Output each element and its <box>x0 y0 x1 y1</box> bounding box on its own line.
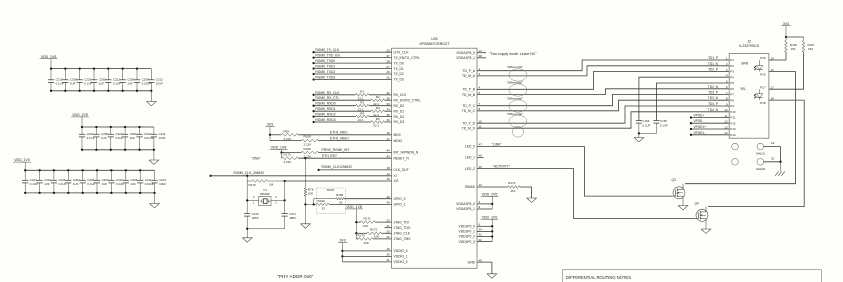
svg-text:U30: U30 <box>431 37 438 41</box>
wire XO <box>285 180 392 182</box>
svg-text:VDD_2V5: VDD_2V5 <box>72 113 88 117</box>
svg-text:"Differential": "Differential" <box>507 96 523 100</box>
wire net RGMII_RX_CTL <box>312 99 314 101</box>
wire 3V3 to R167 <box>786 36 804 38</box>
resistor R167 150 <box>803 37 805 41</box>
svg-text:P13: P13 <box>730 127 736 131</box>
wire VDD1P0_3 <box>477 241 492 243</box>
wire crystal right vertical <box>284 181 286 214</box>
svg-text:R179: R179 <box>249 183 257 187</box>
svg-text:ETH1_MDC: ETH1_MDC <box>330 131 348 135</box>
svg-text:0.1UF: 0.1UF <box>87 136 95 140</box>
svg-text:R189: R189 <box>336 193 344 197</box>
capacitor C222 0.1UF <box>81 127 83 134</box>
svg-text:RGMII_TXD3: RGMII_TXD3 <box>315 76 335 80</box>
wire net RGMII_TXD1 <box>312 67 314 69</box>
svg-text:10UF: 10UF <box>156 81 163 85</box>
svg-text:LED_1: LED_1 <box>465 156 475 160</box>
ground (Q3 source) <box>678 206 688 210</box>
wire VDD1P0_2 <box>477 236 492 238</box>
svg-text:DIFFERENTIAL ROUTING NOTES: DIFFERENTIAL ROUTING NOTES <box>566 275 631 280</box>
wire PRGE_RGMII_INT <box>282 152 302 154</box>
wire cap bank 1 rails <box>51 68 151 70</box>
resistor R189 33 <box>336 198 345 200</box>
svg-text:RGMII_TXD0: RGMII_TXD0 <box>315 59 335 63</box>
connector J2 SHLD2 pad <box>757 159 764 166</box>
capacitor C217 18PF <box>282 213 288 215</box>
svg-text:20: 20 <box>771 156 775 160</box>
wire LED_1 stub <box>477 157 484 159</box>
svg-text:1UF: 1UF <box>70 81 76 85</box>
svg-text:R3: R3 <box>360 101 364 105</box>
svg-text:0.01UF: 0.01UF <box>145 182 155 186</box>
svg-text:R2: R2 <box>376 95 380 99</box>
wire TD_M_D to RJ45 <box>477 112 729 128</box>
wire cap bank 2 rails <box>82 126 154 128</box>
svg-text:3V3: 3V3 <box>267 123 273 127</box>
svg-text:"PHY ADDR 0x0": "PHY ADDR 0x0" <box>277 274 313 279</box>
svg-text:22.1: 22.1 <box>358 118 364 122</box>
junction node 3V3 LED resistors <box>785 36 787 38</box>
svg-text:0.1UF: 0.1UF <box>87 182 95 186</box>
svg-text:R171: R171 <box>364 217 372 221</box>
wire C194/C195 ground rail <box>639 132 657 134</box>
svg-text:R170: R170 <box>284 152 292 156</box>
capacitor C200 1UF <box>122 69 124 80</box>
svg-text:P1: P1 <box>730 58 734 62</box>
svg-text:0.1UF: 0.1UF <box>59 182 67 186</box>
crystal Y4 25MHZ <box>259 196 271 205</box>
svg-text:40: 40 <box>386 201 390 205</box>
svg-text:TD_M_A: TD_M_A <box>462 74 476 78</box>
wire GPIO_1 <box>329 203 392 205</box>
wire SHLD2 to chassis <box>764 161 781 163</box>
svg-text:1UF: 1UF <box>44 182 50 186</box>
svg-text:XI: XI <box>394 174 397 178</box>
svg-text:11K: 11K <box>511 189 516 193</box>
capacitor C201 1UF <box>39 170 41 180</box>
wire strap vertical to GPIO_0 row <box>313 199 315 205</box>
svg-text:39: 39 <box>386 195 390 199</box>
svg-text:RBIAS: RBIAS <box>465 185 476 189</box>
svg-text:13: 13 <box>479 49 483 53</box>
svg-text:10: 10 <box>724 108 728 112</box>
svg-text:R174: R174 <box>508 181 516 185</box>
svg-text:VDD_1V0: VDD_1V0 <box>14 158 30 162</box>
wire strap node horizontal <box>305 203 316 205</box>
capacitor C210 0.01UF <box>139 127 141 134</box>
svg-text:ETH_RST: ETH_RST <box>322 154 337 158</box>
wire VDD1P0_1 <box>477 230 492 232</box>
svg-text:R190: R190 <box>318 199 326 203</box>
svg-text:Q4: Q4 <box>695 201 699 205</box>
svg-text:1UF: 1UF <box>130 136 136 140</box>
svg-text:48: 48 <box>479 54 483 58</box>
svg-text:25MHZ: 25MHZ <box>260 192 270 196</box>
svg-text:"Differential": "Differential" <box>507 80 523 84</box>
svg-text:0.1UF: 0.1UF <box>113 81 121 85</box>
svg-text:43: 43 <box>386 154 390 158</box>
svg-text:VDD_2V5: VDD_2V5 <box>482 193 498 197</box>
ground (cap bank 1) <box>150 90 152 92</box>
resistor R4 22.1 <box>371 110 385 113</box>
junction node strap Y <box>304 203 306 205</box>
capacitor C204 1UF <box>125 170 127 180</box>
svg-text:P9: P9 <box>730 104 734 108</box>
svg-text:YEL: YEL <box>740 87 746 91</box>
wire SHLD1 to chassis <box>764 146 781 148</box>
annotation extra ellipse pair D <box>512 126 523 137</box>
wire JTAG_TDO stub <box>385 227 392 229</box>
annotation Differential ellipse <box>509 69 527 81</box>
wire net RGMII_RXD2 <box>312 115 314 117</box>
notes box DIFFERENTIAL ROUTING NOTES <box>563 270 822 282</box>
wire net RGMII_TXD_EN <box>312 56 314 58</box>
capacitor C203 1UF <box>96 170 98 180</box>
capacitor C223 0.1UF <box>110 127 112 134</box>
svg-text:RGMII_TXD2: RGMII_TXD2 <box>315 70 335 74</box>
junction node JTAG_TDI rail <box>355 221 357 223</box>
svg-text:TD3_P: TD3_P <box>708 91 718 95</box>
connector J2 SHLD1 pad <box>757 143 764 150</box>
svg-text:10K: 10K <box>308 192 313 196</box>
wire J2 P18 to Q4 drain <box>708 100 804 207</box>
svg-text:33: 33 <box>322 206 326 210</box>
svg-text:1UF: 1UF <box>99 81 105 85</box>
svg-text:"Two supply mode: Leave NC": "Two supply mode: Leave NC" <box>489 52 537 56</box>
svg-text:"Differential": "Differential" <box>507 112 523 116</box>
svg-text:P18: P18 <box>760 101 766 105</box>
svg-text:29: 29 <box>386 48 390 52</box>
svg-text:1UF: 1UF <box>102 182 108 186</box>
svg-text:VDD1P0_0: VDD1P0_0 <box>459 225 476 229</box>
svg-text:22: 22 <box>386 235 390 239</box>
svg-text:TD3_N: TD3_N <box>708 96 719 100</box>
svg-text:P16: P16 <box>760 72 766 76</box>
svg-text:1M: 1M <box>269 182 274 186</box>
svg-text:JTAG_TDI: JTAG_TDI <box>394 220 409 224</box>
svg-text:44: 44 <box>386 149 390 153</box>
svg-text:R5: R5 <box>360 111 364 115</box>
wire GPIO_0 <box>344 198 391 200</box>
wire net VPOE- <box>690 122 692 124</box>
capacitor C198 1UF <box>64 69 66 80</box>
svg-text:VDD_1V8: VDD_1V8 <box>271 146 287 150</box>
svg-text:RX_D0: RX_D0 <box>394 104 405 108</box>
annotation Differential ellipse <box>509 100 527 112</box>
svg-text:P10: P10 <box>730 110 736 114</box>
svg-text:"DNS": "DNS" <box>252 157 261 161</box>
resistor R5 22.1 <box>356 115 370 118</box>
wire TD_M_A to RJ45 <box>477 66 729 76</box>
ground (IC GND) <box>487 274 497 278</box>
wire net VPOE1- <box>690 134 692 136</box>
svg-text:VDDA1P8_0: VDDA1P8_0 <box>456 51 475 55</box>
svg-text:3V3: 3V3 <box>339 239 345 243</box>
wire VDDA2P5_0 <box>477 203 492 205</box>
resistor R168 2.21K <box>301 139 318 142</box>
svg-text:GTX_CLK: GTX_CLK <box>394 50 410 54</box>
svg-text:RGMII_TXD_EN: RGMII_TXD_EN <box>315 54 340 58</box>
capacitor C221 0.1UF <box>107 69 109 80</box>
svg-text:INT_N/PWDN_N: INT_N/PWDN_N <box>394 151 419 155</box>
capacitor C194 0.1UF <box>636 120 642 122</box>
wire net RGMII_RXD3 <box>312 121 314 123</box>
svg-text:46: 46 <box>479 154 483 158</box>
svg-text:VDDIO_2: VDDIO_2 <box>394 260 408 264</box>
svg-text:10K: 10K <box>364 241 369 245</box>
svg-text:10K: 10K <box>374 235 379 239</box>
resistor R6 22.1 <box>371 121 385 124</box>
svg-text:0.1UF: 0.1UF <box>660 123 668 127</box>
junction node XO / crystal <box>283 180 285 182</box>
svg-text:10: 10 <box>479 119 483 123</box>
svg-text:VPOE+: VPOE+ <box>694 114 705 118</box>
wire VDDIO_1 <box>341 255 343 257</box>
wire net RGMII_RXD1 <box>312 110 314 112</box>
wire RGMII_CLK_25MHZ <box>209 175 211 177</box>
svg-text:Q3: Q3 <box>672 178 676 182</box>
junction node MDC rail <box>269 134 271 136</box>
svg-text:GPIO_0: GPIO_0 <box>394 197 406 201</box>
wire ETH_RST <box>280 157 282 159</box>
svg-text:TD_P_C: TD_P_C <box>462 104 475 108</box>
ground (cap bank 2) <box>153 149 155 151</box>
capacitor C211 0.01UF <box>139 170 141 180</box>
svg-text:VDDA1P8_1: VDDA1P8_1 <box>456 56 475 60</box>
svg-text:0.1UF: 0.1UF <box>30 182 38 186</box>
wire VDDA1P8_1 stub (NC) <box>477 57 486 59</box>
wire net RGMII_TXD2 <box>312 73 314 75</box>
ground (Q4 source) <box>701 229 711 233</box>
junction node crystal ground rail <box>246 228 248 230</box>
svg-text:24: 24 <box>479 228 483 232</box>
svg-text:10UF: 10UF <box>159 182 166 186</box>
svg-text:19: 19 <box>386 247 390 251</box>
svg-text:RGMII_RX_CLK: RGMII_RX_CLK <box>315 91 340 95</box>
svg-text:R173: R173 <box>358 233 366 237</box>
svg-text:6-2337992-8: 6-2337992-8 <box>739 44 758 48</box>
svg-text:P2: P2 <box>730 64 734 68</box>
svg-text:TD_M_B: TD_M_B <box>462 93 476 97</box>
svg-text:TD4_P: TD4_P <box>708 102 718 106</box>
svg-text:VDDIO_1: VDDIO_1 <box>394 255 408 259</box>
svg-text:VDDIO_0: VDDIO_0 <box>394 249 408 253</box>
svg-text:TX_EN/TX_CTRL: TX_EN/TX_CTRL <box>394 56 420 60</box>
svg-text:P6: P6 <box>730 87 734 91</box>
svg-text:0.1UF: 0.1UF <box>84 81 92 85</box>
wire net RGMII_RXD0 <box>312 105 314 107</box>
svg-text:VPOE-: VPOE- <box>694 119 704 123</box>
resistor R179 1M <box>247 180 252 182</box>
svg-text:RGMII_RX_CTL: RGMII_RX_CTL <box>315 96 339 100</box>
junction node JTAG_CLK rail <box>355 232 357 234</box>
svg-text:1UF: 1UF <box>101 136 107 140</box>
svg-text:TD_P_D: TD_P_D <box>462 121 475 125</box>
dashed DNS box (R189/R190) <box>317 188 346 214</box>
resistor R3 22.1 <box>356 104 370 107</box>
svg-text:TD1_N: TD1_N <box>708 62 719 66</box>
resistor R173 10K <box>359 238 374 241</box>
wire net RGMII_RX_CLK <box>312 94 314 96</box>
svg-text:TD_M_D: TD_M_D <box>462 126 476 130</box>
ground (RBIAS) <box>527 198 537 202</box>
svg-text:TD2_N: TD2_N <box>708 85 719 89</box>
svg-text:18: 18 <box>386 166 390 170</box>
svg-text:150: 150 <box>808 47 813 51</box>
svg-text:TD_P_B: TD_P_B <box>463 88 476 92</box>
wire R166 to J2 P15 <box>769 52 786 60</box>
wire JTAG_CLK <box>356 232 367 234</box>
capacitor C220 0.1UF <box>79 69 81 80</box>
capacitor C226 0.1UF <box>82 170 84 180</box>
svg-text:MDIO: MDIO <box>394 139 403 143</box>
ground (C194/C195) <box>638 133 640 137</box>
svg-text:LED_0: LED_0 <box>465 145 475 149</box>
resistor R190 33 <box>317 203 330 205</box>
svg-text:VDD1P0_3: VDD1P0_3 <box>459 240 476 244</box>
svg-text:RGMII_TX_CLK: RGMII_TX_CLK <box>315 48 340 52</box>
svg-text:31: 31 <box>479 233 483 237</box>
svg-text:16: 16 <box>386 131 390 135</box>
svg-text:TD2_P: TD2_P <box>708 68 718 72</box>
svg-text:SHLD2: SHLD2 <box>756 167 766 171</box>
wire TD_P_D to RJ45 <box>477 106 729 123</box>
svg-text:RX_D3: RX_D3 <box>394 120 405 124</box>
svg-text:15: 15 <box>386 177 390 181</box>
wire TD_M_B to RJ45 <box>477 89 729 95</box>
svg-text:XO: XO <box>394 179 399 183</box>
resistor R2 22.1 <box>371 99 385 102</box>
svg-text:0.1UF: 0.1UF <box>116 182 124 186</box>
svg-text:JTAG_TMS: JTAG_TMS <box>394 237 412 241</box>
wire VDDIO_0 <box>341 250 343 252</box>
capacitor C225 0.1UF <box>53 170 55 180</box>
svg-text:33: 33 <box>386 102 390 106</box>
capacitor C202 1UF <box>67 170 69 180</box>
svg-text:P14: P14 <box>730 133 736 137</box>
wire crystal stubs <box>247 199 259 201</box>
wire ETH1_MDIO <box>270 140 301 142</box>
svg-text:RGMII_TXD1: RGMII_TXD1 <box>315 65 335 69</box>
wire J2 P16 to Q3 drain <box>685 72 795 184</box>
resistor R166 150 <box>785 37 787 41</box>
svg-text:22.1: 22.1 <box>373 124 379 128</box>
svg-text:P7: P7 <box>730 93 734 97</box>
svg-text:"Differential": "Differential" <box>507 65 523 69</box>
svg-text:P15: P15 <box>760 56 766 60</box>
svg-text:34: 34 <box>386 107 390 111</box>
svg-text:18PF: 18PF <box>252 216 259 220</box>
svg-text:VDDA2P5_1: VDDA2P5_1 <box>456 207 475 211</box>
svg-text:TX_D3: TX_D3 <box>394 78 404 82</box>
svg-text:0.1UF: 0.1UF <box>642 123 650 127</box>
capacitor C227 0.1UF <box>110 170 112 180</box>
svg-text:2.21K: 2.21K <box>304 142 312 146</box>
svg-text:R1: R1 <box>360 90 364 94</box>
svg-text:VDD_1V8: VDD_1V8 <box>41 55 57 59</box>
svg-text:1UF: 1UF <box>127 81 133 85</box>
junction node XI / crystal <box>246 175 248 177</box>
svg-text:P11: P11 <box>730 116 735 120</box>
annotation Differential ellipse <box>509 115 527 127</box>
svg-text:JTAG_TDO: JTAG_TDO <box>394 226 411 230</box>
svg-text:GPIO_1: GPIO_1 <box>394 203 406 207</box>
svg-text:GRN: GRN <box>741 62 749 66</box>
svg-text:GND: GND <box>468 260 476 264</box>
svg-text:30: 30 <box>386 253 390 257</box>
svg-text:P3: P3 <box>730 70 734 74</box>
svg-text:RGMII_RXD0: RGMII_RXD0 <box>315 102 335 106</box>
svg-text:28: 28 <box>386 59 390 63</box>
wire net RGMII_TXD3 <box>312 78 314 80</box>
svg-text:45: 45 <box>479 165 483 169</box>
resistor R1 22.1 <box>356 93 370 96</box>
svg-text:0.1UF: 0.1UF <box>56 81 64 85</box>
wire RBIAS <box>477 186 508 188</box>
annotation Differential ellipse <box>509 84 527 96</box>
svg-text:VDD1P0_2: VDD1P0_2 <box>459 235 476 239</box>
svg-text:21: 21 <box>386 224 390 228</box>
svg-text:TD4_N: TD4_N <box>708 108 719 112</box>
wire net RGMII_TX_CLK <box>312 51 314 53</box>
resistor R172 10K <box>367 232 382 235</box>
ground (cap bank 3) <box>153 192 155 194</box>
capacitor C205 1UF <box>95 127 97 134</box>
svg-text:17: 17 <box>386 137 390 141</box>
svg-text:R6: R6 <box>376 117 380 121</box>
wire net RGMII_TXD0 <box>312 62 314 64</box>
wire GND pin to ground <box>477 262 492 274</box>
svg-text:P5: P5 <box>730 81 734 85</box>
svg-text:20: 20 <box>386 230 390 234</box>
svg-text:VPOE1-: VPOE1- <box>694 131 706 135</box>
svg-text:P8: P8 <box>730 99 734 103</box>
svg-text:RGMII_RXD2: RGMII_RXD2 <box>315 113 335 117</box>
capacitor C206 1UF <box>124 127 126 134</box>
svg-text:25: 25 <box>386 76 390 80</box>
svg-text:14: 14 <box>386 172 390 176</box>
svg-text:0.1UF: 0.1UF <box>115 136 123 140</box>
svg-text:10UF: 10UF <box>159 136 166 140</box>
svg-text:RGMII_CLK125MHZ: RGMII_CLK125MHZ <box>322 165 352 169</box>
svg-text:P12: P12 <box>730 122 736 126</box>
svg-text:42: 42 <box>479 238 483 242</box>
svg-text:"DNS": "DNS" <box>326 188 334 192</box>
wire net VPOE+ <box>690 116 692 118</box>
svg-text:TX_D2: TX_D2 <box>394 72 404 76</box>
svg-text:DP83867CRRGZT: DP83867CRRGZT <box>420 42 451 46</box>
resistor R169 2.21K <box>301 151 318 154</box>
wire R167 to J2 P17 <box>769 52 804 89</box>
svg-text:36: 36 <box>386 118 390 122</box>
IC U30 DP83867CRRGZT body <box>392 48 478 268</box>
svg-text:"LINK": "LINK" <box>492 143 502 147</box>
junction node INT rail <box>280 151 282 153</box>
wire J2 pin5 to C195 <box>657 83 730 121</box>
svg-text:R169: R169 <box>304 147 312 151</box>
svg-text:VDD_1V8: VDD_1V8 <box>346 205 362 209</box>
svg-text:18PF: 18PF <box>289 216 296 220</box>
svg-text:TD_M_C: TD_M_C <box>462 109 476 113</box>
wire strap node to ground <box>304 204 306 223</box>
wire TD_P_C to RJ45 <box>477 95 729 106</box>
capacitor C209 0.01UF <box>136 69 138 80</box>
wire RGMII_CLK125MHZ <box>317 169 319 171</box>
svg-text:VDD_1V0: VDD_1V0 <box>482 215 498 219</box>
wire TD_P_B to RJ45 <box>477 72 729 90</box>
svg-text:TD1_P: TD1_P <box>708 56 718 60</box>
